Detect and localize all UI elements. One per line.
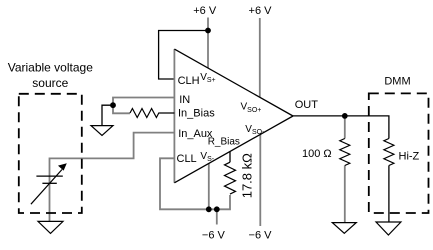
junction node at +6V / CLH	[205, 28, 211, 34]
resistor R_Bias 17.8 kOhm (vertical)	[225, 162, 236, 194]
wire CLH loop	[159, 31, 208, 80]
wire Hi-Z bottom lead	[388, 166, 390, 223]
dashed box: variable voltage source	[19, 94, 82, 213]
svg-text:+6 V: +6 V	[193, 5, 217, 17]
ground (DMM)	[376, 222, 401, 235]
wire V_S+ supply vertical	[207, 18, 209, 69]
svg-text:R_Bias: R_Bias	[208, 137, 240, 148]
svg-text:CLH: CLH	[178, 75, 200, 87]
wire 100 ohm bottom lead	[344, 166, 346, 223]
svg-text:IN: IN	[179, 94, 190, 106]
svg-text:Hi-Z: Hi-Z	[399, 151, 420, 163]
svg-text:DMM: DMM	[384, 76, 410, 88]
wire -6V stub	[216, 209, 218, 224]
ground (IN bias network)	[91, 126, 113, 136]
wire IN ground branch	[102, 105, 113, 125]
junction node at IN bias tee	[110, 102, 116, 108]
svg-text:−6 V: −6 V	[202, 230, 226, 242]
svg-text:17.8 kΩ: 17.8 kΩ	[240, 153, 255, 198]
wire V_SO- supply vertical	[259, 134, 261, 226]
resistor In_Bias (unlabeled, horizontal)	[130, 109, 174, 118]
svg-text:In_Bias: In_Bias	[178, 108, 215, 120]
ground (variable source)	[38, 221, 63, 233]
svg-text:100 Ω: 100 Ω	[302, 148, 332, 160]
variable voltage source VG1	[31, 163, 67, 204]
svg-text:source: source	[32, 76, 68, 90]
dashed box: DMM	[369, 93, 429, 213]
wire OUT net	[293, 116, 389, 139]
op-amp U1	[174, 49, 293, 183]
wire V_S- pin	[208, 163, 210, 209]
resistor 100 Ohm	[340, 139, 350, 166]
wire IN net	[113, 98, 174, 114]
resistor Hi-Z	[384, 139, 394, 166]
wire 100 ohm top lead	[344, 116, 346, 139]
svg-text:CLL: CLL	[177, 153, 197, 165]
svg-text:Variable voltage: Variable voltage	[8, 61, 93, 75]
wire V_SO+ supply vertical	[259, 18, 261, 97]
wire In_Aux net	[50, 133, 175, 221]
wire CLL net and -6V rail	[160, 158, 230, 209]
svg-text:−6 V: −6 V	[249, 230, 273, 242]
junction node -6V on rail	[214, 206, 220, 212]
svg-text:+6 V: +6 V	[249, 5, 273, 17]
svg-text:OUT: OUT	[295, 99, 319, 111]
junction node V_S- on rail	[206, 206, 212, 212]
junction node at OUT	[342, 113, 348, 119]
ground (100 Ohm)	[332, 223, 356, 234]
wire R_Bias top lead	[229, 152, 231, 163]
